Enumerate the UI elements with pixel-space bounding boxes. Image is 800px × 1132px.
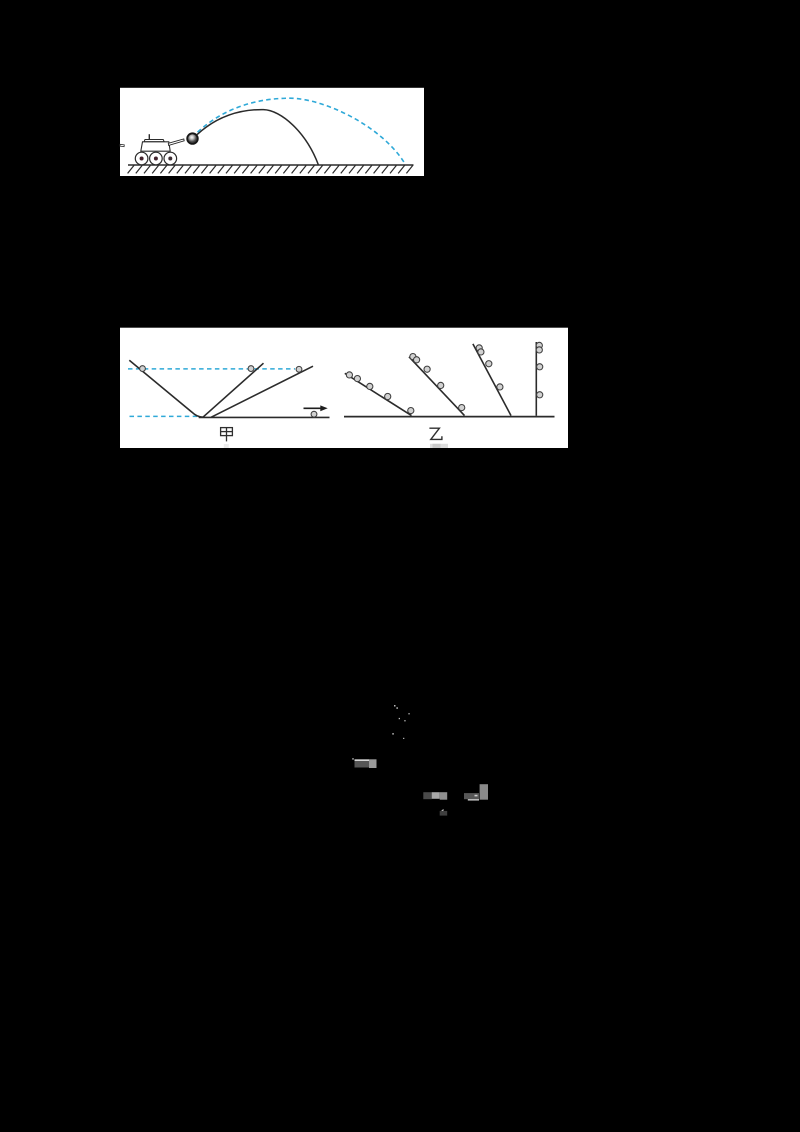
jia right incline — [211, 366, 313, 417]
jia ground line — [199, 416, 330, 418]
jia ball on left incline — [140, 366, 146, 372]
jia lower blue dashed line — [130, 415, 198, 417]
jia label shadow — [224, 444, 229, 448]
tank barrel — [168, 139, 184, 146]
tank wheel 1 — [135, 152, 148, 165]
tank wheel 2 — [150, 152, 163, 165]
yi ground line — [344, 416, 555, 418]
small dash at box left edge — [120, 144, 124, 146]
yi incline 3 — [473, 344, 511, 416]
yi vertical line — [535, 342, 537, 416]
yi incline 1 balls — [346, 372, 414, 414]
tank antenna — [148, 134, 150, 140]
jia ball on right incline — [296, 366, 302, 372]
jia label — [221, 428, 233, 442]
yi incline 1 — [345, 373, 412, 415]
mark cluster 1 speckles — [392, 705, 409, 739]
tank wheel 3 — [164, 152, 177, 165]
dashed blue trajectory — [198, 98, 406, 164]
yi vertical balls — [536, 342, 543, 398]
tank body — [141, 142, 170, 151]
figure 1 ground line — [128, 164, 414, 166]
figure 1 ground hatching — [128, 165, 413, 173]
figure 2 white box — [120, 328, 568, 448]
jia left incline — [129, 360, 203, 417]
mark cluster 3 — [423, 792, 431, 799]
mark cluster 2 — [355, 761, 370, 768]
projectile ball — [187, 133, 198, 144]
figure 1 white box — [120, 88, 424, 176]
yi incline 3 balls — [476, 345, 503, 390]
yi incline 2 balls — [410, 354, 465, 411]
solid trajectory — [197, 110, 318, 165]
yi incline 2 — [409, 357, 465, 416]
yi label — [429, 428, 442, 439]
jia ball on middle incline — [248, 366, 254, 372]
yi label shadow — [430, 444, 448, 448]
jia ball on ground — [311, 411, 317, 417]
jia arrow — [304, 407, 322, 409]
jia upper blue dashed line — [128, 368, 295, 370]
jia middle incline — [203, 363, 264, 417]
tank turret — [144, 140, 164, 142]
